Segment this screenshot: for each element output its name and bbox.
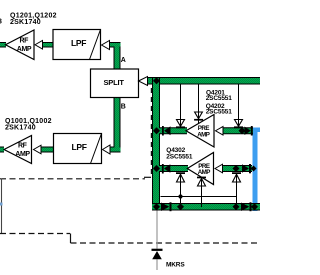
node junction diode A control line <box>178 194 182 198</box>
diode D1 (down, white) <box>176 120 185 129</box>
svg-text:AMP: AMP <box>17 46 32 53</box>
wire blue vertical (right side) <box>252 128 260 212</box>
svg-text:SPLIT: SPLIT <box>104 78 125 87</box>
transistor RF AMP Q1201,Q1202 <box>6 30 35 60</box>
wire preamp2 row right <box>222 165 252 172</box>
diode B (up, white) <box>197 177 206 186</box>
filter LPF2 <box>54 134 102 164</box>
diode series bypass row left <box>161 202 172 211</box>
svg-text:2SC5551: 2SC5551 <box>206 95 233 102</box>
node junction bus bypass corner <box>153 203 160 210</box>
node junction bus row1 <box>153 127 160 134</box>
op-amp PRE AMP U3 (Q4302) <box>187 153 213 185</box>
wire thin diode A anode down to bypass row <box>180 183 182 204</box>
wire thin drop to diode D3 <box>238 85 240 120</box>
node junction diode C row2 <box>233 165 240 172</box>
svg-text:3: 3 <box>0 19 2 26</box>
wire thin line through diode A <box>180 174 182 183</box>
svg-text:LPF: LPF <box>72 142 87 152</box>
wire thin drop to diode D1 <box>180 85 182 120</box>
node junction blue bypass <box>251 203 258 210</box>
boundary dashed top <box>0 178 145 180</box>
node junction blue row2 <box>251 166 257 172</box>
wire thin line through diode D2 <box>198 112 200 119</box>
diode MKRS <box>152 249 163 260</box>
svg-text:A: A <box>121 57 126 64</box>
diode series row2 right <box>242 164 251 173</box>
wire RF amp2 to LPF2 <box>41 147 54 153</box>
boundary dashed bottom left <box>0 233 70 235</box>
wire thin line through diode B <box>201 178 203 186</box>
wire left green bus vertical <box>152 77 160 211</box>
svg-text:2SK1740: 2SK1740 <box>10 19 41 26</box>
wire green stub left edge path A <box>0 42 6 48</box>
wire thin drop to diode D2 <box>198 85 200 113</box>
svg-text:B: B <box>121 104 126 111</box>
wire LPF1 corner + vertical A/B + corner LPF2 <box>110 42 121 153</box>
svg-text:AMP: AMP <box>197 131 210 138</box>
diode D2 (down, white) <box>194 112 203 121</box>
node junction diode A bypass <box>177 203 184 210</box>
svg-text:2SC5551: 2SC5551 <box>206 109 233 116</box>
wire gray MKRS feed <box>156 211 158 249</box>
svg-text:2SC5551: 2SC5551 <box>166 154 193 161</box>
boundary dashed vertical (right of LPF2) <box>150 88 152 177</box>
wire green stub left edge path B <box>0 147 4 153</box>
boundary dash corner tick <box>144 176 151 178</box>
wire thin control line to bus <box>161 196 237 198</box>
arrow out of preamp1 <box>216 127 224 136</box>
diode series row2 left (bar left) <box>162 164 170 174</box>
diode C (up, white) <box>232 172 241 182</box>
node junction top bus <box>153 77 160 84</box>
filter LPF1 <box>53 30 101 60</box>
boundary dashed bottom right <box>71 242 261 244</box>
op-amp PRE AMP U2 (Q4201/Q4202) <box>186 115 214 148</box>
wire thin diode C anode down to bypass row <box>236 183 238 204</box>
boundary step vertical <box>70 234 72 244</box>
wire top horizontal SPLIT input <box>148 77 261 85</box>
arrow into SPLIT <box>139 77 148 86</box>
diode series bypass row right <box>241 202 252 211</box>
svg-text:RF: RF <box>18 142 28 149</box>
arrow out of RF amp2 <box>34 145 42 154</box>
diode series row1 left (bar left) <box>162 126 171 136</box>
svg-text:2SK1740: 2SK1740 <box>5 124 36 131</box>
wire preamp1 row right <box>223 127 254 134</box>
arrow into LPF2 <box>103 145 111 154</box>
wire RF amp1 to LPF1 <box>43 42 54 48</box>
node junction bus row2 <box>153 165 160 172</box>
svg-text:RF: RF <box>20 37 30 44</box>
node junction diode C bypass <box>233 203 240 210</box>
transistor RF AMP Q1001,Q1002 <box>4 136 32 164</box>
svg-text:AMP: AMP <box>15 151 30 158</box>
wire preamp1 row left <box>159 127 187 134</box>
wire thin diode B anode down to bypass row <box>201 186 203 207</box>
boundary left vertical line <box>1 179 3 234</box>
node blue tick left edge <box>0 203 3 206</box>
node junction row1 right <box>239 127 246 134</box>
arrow out of RF amp1 <box>35 41 43 50</box>
splitter SPLIT <box>91 69 139 98</box>
wire preamp2 row left <box>159 165 188 172</box>
svg-text:MKRS: MKRS <box>166 261 185 268</box>
wire thin line through diode C <box>236 174 238 183</box>
wire thin line through diode D1 <box>180 120 182 127</box>
wire thin diode D2 to preamp1 <box>198 121 200 125</box>
svg-text:LPF: LPF <box>71 38 86 48</box>
wire thin line through diode D3 <box>238 120 240 127</box>
diode D3 (down, white) <box>234 120 243 129</box>
wire bottom bypass row <box>152 203 260 211</box>
svg-text:AMP: AMP <box>198 169 211 176</box>
arrow out of preamp2 <box>215 164 223 173</box>
diode series row1 right <box>245 126 253 136</box>
diode A (up, white) <box>176 172 185 182</box>
arrow into LPF1 <box>102 41 110 50</box>
